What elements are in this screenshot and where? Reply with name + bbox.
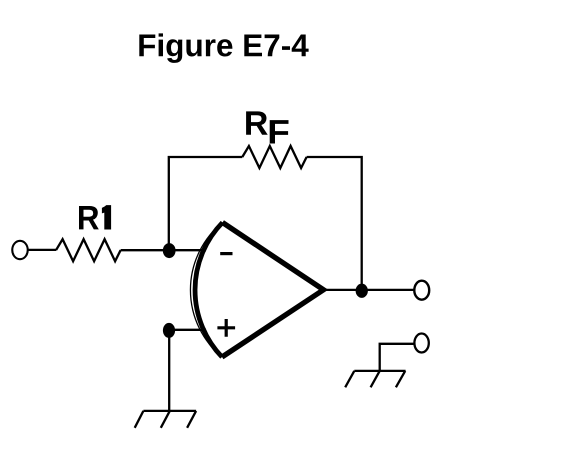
wire: R1 to inverting input of op-amp	[121, 249, 206, 251]
wire: reference terminal to ground	[380, 344, 415, 371]
label RF	[246, 111, 288, 143]
op-amp U1	[190, 223, 323, 358]
ground GND2 (below output terminal)	[345, 371, 405, 387]
output terminal	[414, 281, 429, 300]
wire: op-amp output to output terminal	[324, 289, 415, 291]
resistor R1	[56, 239, 121, 261]
ground GND1 (below op-amp)	[135, 411, 196, 428]
pin label: non-inverting (+) input	[217, 319, 235, 337]
reference terminal (bottom right)	[414, 334, 428, 353]
node: output junction	[356, 284, 368, 298]
wire: input lead to R1	[28, 249, 56, 251]
wire: feedback right branch (RF across and down to output node)	[307, 157, 362, 291]
node: non-inverting input junction	[163, 323, 175, 338]
label R1	[79, 205, 111, 229]
wire: feedback left branch (inverting node up and across to RF)	[169, 157, 243, 250]
wire: non-inverting input lead	[169, 329, 206, 331]
wire: non-inverting node down to ground	[168, 330, 170, 411]
title: Figure E7-4	[139, 33, 308, 63]
pin label: inverting (-) input	[220, 252, 232, 255]
node: inverting input junction	[163, 243, 176, 258]
resistor RF	[242, 146, 306, 168]
input terminal	[12, 241, 28, 259]
